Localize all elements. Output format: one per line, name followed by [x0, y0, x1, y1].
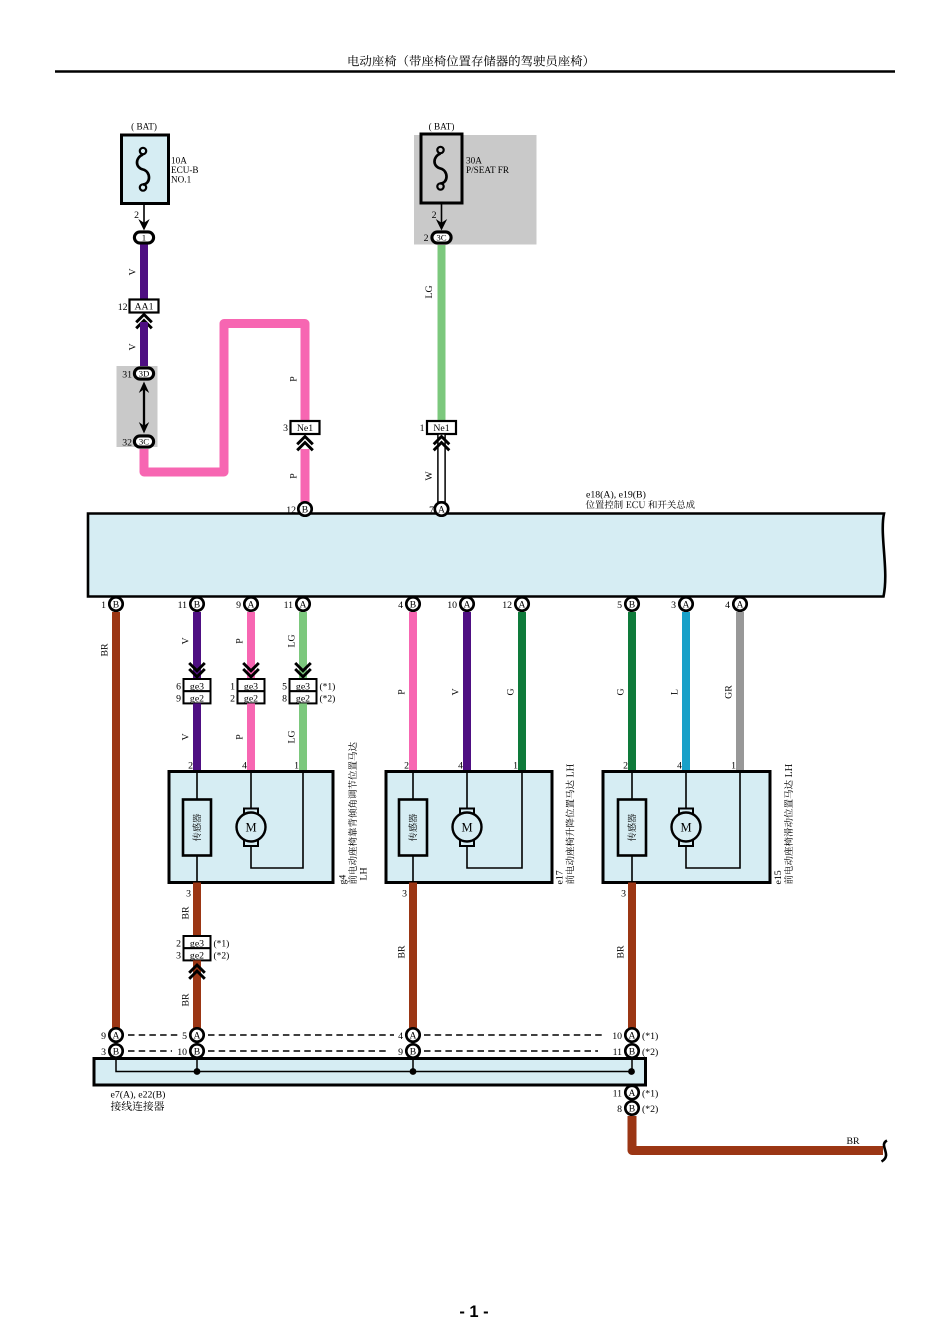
svg-text:1: 1	[101, 600, 106, 611]
svg-text:11: 11	[284, 600, 294, 611]
svg-text:1: 1	[230, 681, 235, 692]
svg-text:BR: BR	[846, 1136, 860, 1147]
svg-text:ge3: ge3	[190, 938, 204, 949]
motor return wire M2	[467, 772, 522, 869]
svg-text:LG: LG	[287, 730, 298, 743]
svg-text:B: B	[302, 504, 308, 515]
motor box M3	[603, 772, 770, 883]
svg-text:12: 12	[286, 505, 296, 516]
connector oval 1	[134, 232, 153, 243]
svg-text:V: V	[181, 637, 192, 644]
connector ge3/ge2 col3	[238, 679, 265, 691]
wire V ge connector to motor1	[193, 703, 201, 772]
svg-text:BR: BR	[100, 643, 111, 657]
svg-text:M: M	[680, 821, 691, 835]
fuse F2 symbol	[437, 147, 443, 153]
svg-text:e15: e15	[773, 870, 784, 884]
svg-text:P: P	[235, 734, 246, 740]
wire G ECU to motor	[518, 612, 526, 772]
chevron below Ne1 left	[297, 437, 313, 451]
svg-text:P: P	[397, 689, 408, 695]
svg-text:2: 2	[230, 694, 235, 705]
svg-text:Ne1: Ne1	[297, 423, 313, 434]
chevron below AA1	[136, 315, 152, 329]
svg-text:ge2: ge2	[190, 951, 204, 962]
svg-text:3: 3	[283, 423, 288, 434]
svg-text:LG: LG	[287, 634, 298, 647]
sensor box 传感器 M3	[618, 800, 646, 856]
junction dashed bus row A	[128, 1034, 602, 1036]
svg-text:A: A	[683, 599, 690, 610]
svg-text:B: B	[629, 599, 635, 610]
chevron into ge connector	[295, 663, 311, 677]
svg-text:e17: e17	[555, 870, 566, 884]
wire V ECU to ge connector	[193, 612, 201, 679]
svg-text:B: B	[410, 1046, 416, 1057]
off-page squiggle	[882, 1141, 888, 1162]
svg-text:8: 8	[282, 694, 287, 705]
wire G ECU to motor	[628, 612, 636, 772]
svg-text:B: B	[629, 1103, 635, 1114]
svg-text:A: A	[519, 599, 526, 610]
wire LG from 3C to Ne1	[438, 245, 446, 422]
motor M1 symbol	[244, 809, 258, 815]
connector ge3/ge2 below motor1	[184, 936, 211, 948]
svg-text:12: 12	[502, 600, 512, 611]
svg-text:5: 5	[182, 1031, 187, 1042]
svg-text:e18(A), e19(B): e18(A), e19(B)	[586, 490, 646, 501]
svg-text:9: 9	[101, 1031, 106, 1042]
sensor lead wires M2	[412, 772, 414, 801]
motor M3 symbol	[679, 809, 693, 815]
svg-text:6: 6	[176, 681, 181, 692]
gray block around fuse F2	[414, 135, 537, 245]
svg-text:4: 4	[677, 761, 682, 772]
svg-text:A: A	[248, 599, 255, 610]
svg-text:(*2): (*2)	[642, 1104, 658, 1115]
svg-text:A: A	[629, 1088, 636, 1099]
svg-text:V: V	[451, 688, 462, 695]
svg-text:(*1): (*1)	[214, 938, 230, 949]
svg-text:ge3: ge3	[190, 681, 204, 692]
svg-text:ge2: ge2	[244, 694, 258, 705]
svg-text:( BAT): ( BAT)	[131, 122, 157, 132]
svg-text:7: 7	[429, 505, 434, 516]
wire BR ge connector to junction	[193, 960, 201, 1028]
svg-text:BR: BR	[181, 906, 192, 920]
svg-text:32: 32	[122, 438, 132, 449]
arrowhead into connector 3C right	[436, 219, 447, 231]
svg-text:LG: LG	[424, 285, 435, 298]
svg-text:( BAT): ( BAT)	[429, 122, 455, 132]
svg-text:A: A	[629, 1030, 636, 1041]
wire P ge connector to motor1	[247, 703, 255, 772]
svg-text:5: 5	[617, 600, 622, 611]
svg-text:4: 4	[398, 1031, 403, 1042]
ECU label 位置控制 ECU 和开关总成	[586, 500, 695, 509]
svg-text:31: 31	[122, 370, 132, 381]
svg-text:BR: BR	[616, 945, 627, 959]
wire BR motor3 to junction	[628, 883, 636, 1029]
svg-text:4: 4	[458, 761, 463, 772]
svg-text:10A: 10A	[171, 156, 187, 166]
wire V from connector 1 to AA1	[140, 245, 148, 301]
wire BR from junction 8(B) off-page	[632, 1116, 883, 1151]
connector box AA1	[130, 300, 159, 313]
svg-text:(*1): (*1)	[642, 1031, 658, 1042]
svg-text:3C: 3C	[436, 233, 446, 243]
svg-text:3: 3	[101, 1047, 106, 1058]
svg-text:e7(A), e22(B): e7(A), e22(B)	[111, 1090, 166, 1101]
svg-text:3: 3	[186, 889, 191, 900]
sensor box 传感器 M1	[183, 800, 211, 856]
svg-text:(*2): (*2)	[320, 694, 336, 705]
junction internal bus	[116, 1059, 632, 1072]
wire from fuse F2 pin 2	[441, 203, 443, 227]
svg-text:- 1 -: - 1 -	[459, 1303, 488, 1321]
fuse F1 10A ECU-B NO.1 box	[122, 135, 169, 204]
svg-text:V: V	[128, 268, 139, 275]
svg-text:ge3: ge3	[244, 681, 258, 692]
svg-text:4: 4	[242, 761, 247, 772]
wire from fuse F1 pin 2	[143, 203, 145, 227]
svg-text:BR: BR	[181, 993, 192, 1007]
svg-text:1: 1	[731, 761, 736, 772]
chevron into ge connector	[243, 663, 259, 677]
svg-text:(*2): (*2)	[214, 951, 230, 962]
svg-text:ECU-B: ECU-B	[171, 165, 199, 175]
svg-text:V: V	[128, 343, 139, 350]
svg-text:3C: 3C	[139, 437, 149, 447]
title rule	[55, 70, 895, 72]
svg-text:ge3: ge3	[296, 681, 310, 692]
connector box Ne1 (left)	[291, 421, 320, 434]
svg-text:(*1): (*1)	[320, 681, 336, 692]
svg-text:ge2: ge2	[190, 694, 204, 705]
svg-text:3: 3	[402, 889, 407, 900]
svg-text:2: 2	[134, 210, 139, 221]
svg-text:1: 1	[142, 233, 146, 243]
svg-text:3: 3	[621, 889, 626, 900]
svg-text:BR: BR	[397, 945, 408, 959]
sensor lead wires M3	[631, 772, 633, 801]
svg-text:B: B	[113, 599, 119, 610]
svg-text:10: 10	[447, 600, 457, 611]
wire P from 3C to Ne1 (routed)	[144, 324, 305, 473]
svg-text:3D: 3D	[139, 369, 150, 379]
motor lead wire M3	[685, 772, 687, 810]
svg-text:8: 8	[617, 1104, 622, 1115]
svg-text:A: A	[194, 1030, 201, 1041]
svg-text:A: A	[113, 1030, 120, 1041]
motor box M1	[169, 772, 333, 883]
motor M2 symbol	[460, 809, 474, 815]
title 电动座椅（带座椅位置存储器的驾驶员座椅）	[349, 55, 587, 67]
svg-text:9: 9	[236, 600, 241, 611]
svg-text:11: 11	[613, 1047, 623, 1058]
motor return wire M3	[686, 772, 740, 869]
svg-text:11: 11	[178, 600, 188, 611]
svg-text:3: 3	[671, 600, 676, 611]
svg-text:3: 3	[176, 951, 181, 962]
motor M1 label g4 前电动座椅靠背倾角调节位置马达 LH	[338, 742, 370, 884]
svg-text:4: 4	[725, 600, 730, 611]
junction connector strip e7(A),e22(B)	[94, 1059, 646, 1086]
svg-text:V: V	[181, 733, 192, 740]
svg-text:A: A	[300, 599, 307, 610]
gray junction block 3D/3C	[117, 366, 158, 447]
chevron into ge connector below motor1	[189, 965, 205, 979]
svg-text:G: G	[616, 688, 627, 695]
svg-text:P: P	[289, 376, 300, 382]
motor M2 label e17 前电动座椅升降位置马达 LH	[555, 764, 575, 885]
svg-text:10: 10	[177, 1047, 187, 1058]
motor lead wire M2	[466, 772, 468, 810]
svg-text:2: 2	[404, 761, 409, 772]
svg-text:AA1: AA1	[134, 302, 153, 313]
svg-text:4: 4	[398, 600, 403, 611]
junction node dots	[194, 1068, 201, 1075]
svg-text:NO.1: NO.1	[171, 175, 192, 185]
wire P from Ne1 to ECU pin 12(B)	[301, 449, 310, 502]
svg-text:B: B	[194, 1046, 200, 1057]
svg-text:GR: GR	[724, 685, 735, 699]
ECU U1 position-control ECU and switch assembly box	[88, 514, 885, 597]
svg-text:L: L	[670, 689, 681, 695]
svg-text:Ne1: Ne1	[433, 423, 449, 434]
wire LG ECU to ge connector	[299, 612, 307, 679]
svg-text:P: P	[235, 638, 246, 644]
svg-text:5: 5	[282, 681, 287, 692]
svg-text:11: 11	[613, 1089, 623, 1100]
svg-text:2: 2	[432, 210, 437, 221]
svg-text:9: 9	[398, 1047, 403, 1058]
wire L ECU to motor	[682, 612, 690, 772]
svg-text:B: B	[194, 599, 200, 610]
svg-text:12: 12	[118, 302, 128, 313]
svg-text:B: B	[113, 1046, 119, 1057]
wire GR ECU to motor	[736, 612, 744, 772]
wire BR motor1 to ge connector	[193, 883, 201, 937]
connector oval 3D	[134, 368, 153, 379]
wire V ECU to motor	[463, 612, 471, 772]
svg-text:1: 1	[420, 423, 425, 434]
svg-text:B: B	[629, 1046, 635, 1057]
svg-text:M: M	[245, 821, 256, 835]
motor lead wire M1	[250, 772, 252, 810]
connector ge3/ge2 col4	[290, 679, 317, 691]
svg-text:1: 1	[513, 761, 518, 772]
svg-text:2: 2	[623, 761, 628, 772]
svg-text:P: P	[289, 473, 300, 479]
wire BR from ECU 1(B) to junction connector	[112, 612, 120, 1028]
motor return wire M1	[251, 772, 303, 869]
svg-text:30A: 30A	[466, 156, 482, 166]
chevron into ge connector	[189, 663, 205, 677]
wire V from AA1 to 3D	[140, 322, 148, 368]
svg-text:10: 10	[612, 1031, 622, 1042]
svg-text:2: 2	[188, 761, 193, 772]
arrowhead into connector 1	[138, 219, 149, 231]
connector oval 3C	[134, 436, 153, 447]
junction dashed bus row B	[128, 1050, 598, 1052]
svg-text:A: A	[438, 504, 445, 515]
fuse F2 30A P/SEAT FR box	[421, 134, 462, 203]
wire BR motor2 to junction	[409, 883, 417, 1029]
svg-text:1: 1	[294, 761, 299, 772]
connector box Ne1 (right)	[427, 421, 456, 434]
svg-text:A: A	[410, 1030, 417, 1041]
svg-text:2: 2	[176, 938, 181, 949]
svg-text:ge2: ge2	[296, 694, 310, 705]
svg-text:G: G	[506, 688, 517, 695]
wire P ECU to ge connector	[247, 612, 255, 679]
svg-text:A: A	[464, 599, 471, 610]
connector oval 3C (right)	[432, 232, 451, 243]
svg-text:(*1): (*1)	[642, 1089, 658, 1100]
svg-text:W: W	[424, 471, 435, 481]
motor M3 label e15 前电动座椅滑动位置马达 LH	[773, 764, 793, 885]
svg-text:A: A	[737, 599, 744, 610]
svg-text:P/SEAT FR: P/SEAT FR	[466, 165, 510, 175]
chevron below Ne1 right	[434, 437, 450, 451]
svg-text:2: 2	[424, 233, 429, 244]
svg-text:9: 9	[176, 694, 181, 705]
svg-text:g4: g4	[338, 875, 349, 885]
connector ge3/ge2 col2	[184, 679, 211, 691]
sensor lead wires M1	[196, 772, 198, 801]
svg-text:LH: LH	[359, 867, 370, 880]
svg-text:M: M	[461, 821, 472, 835]
sensor box 传感器 M2	[399, 800, 427, 856]
svg-text:B: B	[410, 599, 416, 610]
wire P ECU to motor	[409, 612, 417, 772]
wire W from Ne1 to ECU pin 7(A)	[438, 434, 445, 502]
fuse F1 symbol	[140, 148, 146, 154]
double-headed arrow between 3D and 3C	[143, 386, 145, 429]
svg-text:(*2): (*2)	[642, 1047, 658, 1058]
motor box M2	[386, 772, 552, 883]
wire LG ge connector to motor1	[299, 703, 307, 772]
